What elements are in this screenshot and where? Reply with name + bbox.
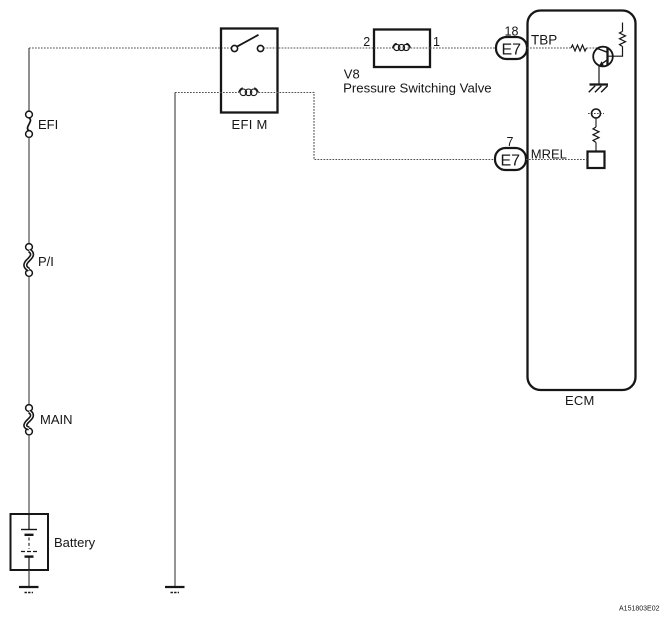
svg-text:V8: V8 — [344, 67, 360, 82]
resistor base R — [571, 45, 587, 51]
connector E7 pin 7 — [495, 135, 526, 170]
wire resistor to driver box — [595, 142, 597, 151]
fuse EFI — [26, 111, 59, 137]
wire V8 to connector E7 pin 18 — [430, 47, 496, 49]
svg-text:7: 7 — [507, 135, 514, 149]
svg-text:Battery: Battery — [54, 535, 96, 550]
svg-text:P/I: P/I — [38, 254, 54, 269]
relay coil — [239, 88, 259, 96]
relay EFI M — [221, 29, 278, 132]
wire switch to V8 valve — [264, 47, 374, 49]
wire power node to resistor — [595, 118, 597, 127]
fusible link P/I — [25, 244, 54, 277]
wire relay coil left to drop — [175, 92, 239, 94]
wire emitter down — [598, 66, 600, 84]
ground inside ECM — [589, 85, 608, 93]
ground battery — [19, 587, 39, 593]
wire relay coil right then down to MREL line — [259, 93, 496, 160]
svg-text:EFI: EFI — [38, 117, 58, 132]
wire left vertical battery feed upper — [28, 48, 30, 111]
svg-text:Pressure Switching Valve: Pressure Switching Valve — [343, 80, 492, 95]
svg-text:A151803E02: A151803E02 — [619, 606, 660, 613]
wire left vertical between MAIN and battery — [28, 435, 30, 514]
resistor collector pull-up — [620, 31, 626, 46]
svg-text:1: 1 — [433, 35, 440, 49]
svg-text:2: 2 — [363, 35, 370, 49]
svg-text:ECM: ECM — [565, 393, 595, 408]
wire battery to ground — [28, 570, 30, 587]
V8 coil — [393, 43, 411, 50]
wire left vertical between P/I and MAIN — [28, 276, 30, 404]
transistor Q (NPN output) — [593, 47, 613, 67]
svg-text:TBP: TBP — [531, 33, 557, 48]
wire pull-up stub to supply — [622, 23, 624, 32]
connector E7 pin 18 — [496, 24, 527, 59]
svg-text:E7: E7 — [502, 41, 522, 58]
svg-text:MAIN: MAIN — [40, 412, 73, 427]
solenoid V8 pressure switching valve — [374, 30, 430, 68]
wire collector to pull-up — [608, 47, 623, 57]
ground bottom center — [165, 587, 185, 593]
wire MREL into ECM — [526, 159, 588, 161]
battery — [11, 514, 96, 570]
wire TBP into ECM — [527, 47, 571, 49]
wire top horizontal from node A to relay switch — [29, 47, 232, 49]
fusible link MAIN — [25, 405, 72, 435]
ECM box — [528, 11, 636, 408]
driver block U (MREL driver) — [588, 152, 605, 169]
resistor MREL pull — [593, 127, 599, 142]
wire resistor to transistor — [587, 47, 597, 49]
svg-text:E7: E7 — [501, 152, 521, 169]
wire left vertical between EFI and P/I — [28, 137, 30, 243]
svg-text:18: 18 — [505, 24, 519, 38]
wire center vertical to ground — [174, 93, 176, 588]
svg-text:EFI M: EFI M — [232, 117, 268, 132]
power node circle — [588, 109, 604, 118]
